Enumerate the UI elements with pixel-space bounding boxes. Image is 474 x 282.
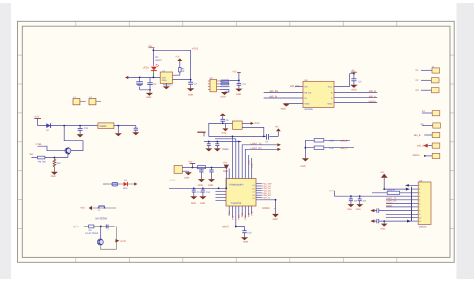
svg-text:VCAP: VCAP [169, 179, 175, 182]
svg-text:RO: RO [305, 85, 309, 88]
ground at U3 pin4 [281, 104, 290, 111]
capacitor C4 [237, 80, 247, 88]
ground under C3 [187, 88, 194, 96]
ground under C10 [241, 237, 249, 243]
node junction [153, 49, 155, 51]
svg-text:6: 6 [419, 202, 420, 205]
svg-text:+5V: +5V [380, 171, 385, 174]
capacitor C6 above [221, 116, 230, 123]
connector J6 [432, 132, 440, 137]
op-amp U2 body [210, 79, 217, 92]
ground under C13 [190, 196, 197, 205]
ground under U1 [163, 83, 170, 89]
bus entry arrow [406, 188, 410, 191]
connector J8 [432, 153, 440, 158]
wire pin8 VCC loop [334, 74, 354, 87]
svg-text:GND: GND [184, 177, 189, 180]
resistor R6 [37, 156, 46, 163]
capacitor C2 [147, 77, 157, 91]
wire [422, 112, 432, 114]
ground mid [115, 126, 122, 137]
ground under C16 [132, 132, 139, 135]
MCU top pin wires [215, 136, 277, 178]
resistor R1 [179, 68, 186, 74]
power arrow +3V3 [175, 56, 182, 68]
svg-text:NRST: NRST [223, 226, 230, 229]
resistor R7 zigzag [53, 158, 61, 169]
svg-text:GND: GND [347, 208, 352, 211]
svg-text:GND: GND [51, 175, 56, 178]
ground under U2 [221, 92, 229, 98]
MCU bottom pin wires [229, 206, 252, 227]
wire down [100, 226, 102, 239]
wire pin xtal1 [235, 139, 237, 179]
connector J2 [431, 78, 439, 83]
svg-text:VCC: VCC [328, 85, 333, 88]
capacitor C1 polarized [136, 77, 143, 89]
svg-text:GND: GND [188, 94, 193, 97]
svg-text:GNDA: GNDA [369, 100, 377, 103]
ground under C11 [198, 179, 205, 187]
op-amp U3 body SP3485 [303, 81, 334, 107]
wire pin5 gnd [334, 102, 377, 104]
wire pin1 [228, 206, 230, 216]
canvas strip right [457, 3, 474, 279]
transistor Q2 [97, 239, 103, 245]
svg-text:CTRL: CTRL [36, 143, 43, 146]
ground under R7 [51, 169, 58, 179]
svg-text:R6 10K: R6 10K [38, 161, 46, 164]
wire pin4 loop [220, 90, 229, 93]
svg-text:OUT1: OUT1 [120, 240, 127, 243]
frame tick marks [18, 21, 455, 262]
pin stubs left [208, 81, 210, 90]
net labels rows [386, 197, 397, 208]
bus line [411, 187, 413, 221]
wire pin1 [182, 167, 192, 169]
wire pin4 long with caps [335, 191, 412, 196]
svg-text:485_B: 485_B [340, 140, 347, 143]
port arrow [423, 144, 428, 148]
resistor R3 [221, 83, 229, 85]
wire left pin [223, 122, 233, 124]
power arrow up [381, 174, 388, 178]
wire pin7 B [334, 91, 377, 93]
capacitor C3 [188, 80, 197, 89]
svg-text:R9 470: R9 470 [388, 189, 396, 192]
wire [422, 125, 433, 127]
svg-text:RED: RED [123, 187, 128, 190]
resistor R8 [89, 225, 94, 232]
LED D1 [151, 64, 159, 71]
MCU right pin stubs and labels [256, 184, 262, 198]
power symbol +5V [350, 70, 356, 74]
svg-text:GNDA: GNDA [413, 154, 420, 157]
svg-text:3: 3 [419, 192, 420, 195]
wire emitter rail [31, 157, 68, 159]
svg-text:NET1: NET1 [103, 183, 110, 186]
wire pin a [248, 155, 250, 179]
resistor R4 [314, 139, 324, 142]
wire R4 row [305, 139, 350, 141]
svg-text:GND: GND [200, 202, 205, 205]
wire pin uart tx [242, 145, 277, 179]
canvas strip left [0, 3, 11, 279]
wire output rail [114, 125, 136, 127]
node [79, 125, 81, 127]
node [100, 226, 102, 228]
ground under C14 [199, 196, 206, 205]
node [153, 77, 155, 79]
capacitor C7 series [265, 134, 269, 143]
wire cap bottoms [140, 90, 150, 93]
svg-text:5: 5 [419, 199, 420, 202]
capacitor C10 [242, 231, 252, 238]
wire xtal bus b [215, 138, 236, 140]
ground under C15 [77, 134, 84, 137]
wire load-cap bus [204, 141, 241, 143]
svg-text:GND: GND [191, 202, 196, 205]
svg-text:+5V: +5V [175, 56, 180, 59]
svg-text:485_RO: 485_RO [290, 85, 299, 88]
resistor R5 [314, 146, 324, 149]
inner frame [22, 26, 450, 257]
svg-text:11: 11 [419, 220, 421, 223]
wire reset cap [236, 227, 245, 231]
wire R5 row [305, 147, 354, 149]
wire [92, 207, 116, 209]
pin names right [328, 85, 333, 105]
bus entry arrow pin1 [405, 184, 409, 187]
svg-text:485_A: 485_A [369, 95, 377, 98]
wire [421, 79, 431, 81]
svg-text:10: 10 [419, 217, 421, 220]
svg-text:C15: C15 [84, 127, 89, 130]
wire [421, 89, 431, 91]
power flag up-triangle [275, 125, 281, 136]
svg-text:1: 1 [419, 184, 420, 187]
capacitor C21 [358, 195, 362, 204]
svg-text:1K: 1K [182, 70, 185, 73]
wire pin2 [220, 83, 230, 85]
svg-text:GND: GND [236, 93, 241, 96]
transistor Q1 [65, 148, 71, 155]
port arrow RX [277, 148, 281, 151]
diode D2 [46, 123, 51, 132]
node [63, 125, 65, 127]
wire pin10 [386, 217, 412, 219]
ground under C9 [214, 148, 221, 151]
node [139, 77, 141, 79]
wire pin6 [386, 203, 412, 205]
svg-text:GND: GND [198, 184, 203, 187]
svg-text:PD7_TL: PD7_TL [262, 196, 271, 199]
power symbol +5V top [149, 48, 155, 51]
wire pin20 [228, 169, 230, 179]
svg-text:+5V1: +5V1 [192, 48, 199, 51]
svg-text:ROM0: ROM0 [262, 207, 270, 210]
capacitor C5 [351, 74, 362, 85]
wire base staircase [37, 146, 66, 151]
wire pin11 with series cap [370, 219, 411, 223]
node [353, 73, 355, 75]
wire pin4 [238, 206, 240, 218]
gnd bar symbol left [197, 132, 205, 136]
wire pin uart rx [245, 149, 277, 178]
svg-text:8: 8 [419, 209, 420, 212]
svg-text:485_B: 485_B [369, 90, 377, 93]
power symbol +12V [33, 116, 41, 126]
svg-text:C14: C14 [206, 191, 211, 194]
svg-text:SP3485: SP3485 [304, 108, 313, 111]
svg-text:4: 4 [419, 195, 420, 198]
wire collector loop [64, 126, 83, 151]
node [117, 125, 119, 127]
wire [424, 155, 432, 157]
wire pin8 [251, 206, 253, 214]
connector J1 [432, 68, 440, 73]
resistor R2 [221, 80, 229, 82]
connector J4 [432, 111, 440, 116]
wire [424, 134, 432, 136]
wire pin3 [220, 86, 230, 88]
schematic page [18, 21, 455, 262]
bottom pin net labels rotated [228, 210, 254, 219]
wire emitter stub [67, 154, 69, 158]
ground under C21 [356, 204, 363, 211]
connector J3 [431, 88, 439, 93]
node [54, 157, 56, 159]
svg-text:485_A: 485_A [417, 145, 424, 148]
svg-text:10K: 10K [56, 162, 61, 165]
wire [428, 145, 433, 147]
wire pin4 gnd [284, 103, 303, 105]
wire loop left [209, 123, 278, 136]
svg-text:VBAT: VBAT [329, 189, 335, 192]
wire box right loop [242, 127, 264, 136]
ground under C4 [235, 89, 242, 97]
pin names left [305, 85, 312, 105]
capacitor C14 [201, 187, 211, 196]
svg-text:NET2: NET2 [73, 225, 80, 228]
wire pin2 [264, 91, 303, 93]
wire [421, 69, 432, 71]
node [238, 80, 240, 82]
svg-text:485_DI: 485_DI [269, 96, 277, 99]
wire pin b [251, 158, 253, 179]
wire pin6 [244, 206, 246, 218]
capacitor C15 [78, 126, 89, 135]
svg-text:GND: GND [162, 79, 167, 82]
capacitor C9 [215, 142, 219, 149]
wire loop to arrow [101, 226, 117, 249]
pin stubs bus to box [406, 185, 419, 221]
ground [146, 91, 153, 99]
wire lower cap bus [169, 187, 226, 189]
svg-text:RE DE: RE DE [305, 91, 312, 94]
connector J9 2-pin box [174, 166, 182, 174]
wire pin7 [386, 206, 412, 208]
ground below [381, 220, 388, 230]
svg-text:485_A: 485_A [340, 147, 347, 150]
svg-text:GND: GND [305, 103, 310, 106]
svg-text:AMS1117: AMS1117 [163, 84, 173, 87]
input rail wire [128, 76, 160, 78]
ground under C8 [205, 148, 212, 151]
capacitor C8 [207, 142, 211, 149]
ground arrow below [272, 214, 279, 221]
resistor R9 [387, 191, 400, 194]
svg-text:+5V: +5V [275, 125, 280, 128]
transistor U4 MCU body [226, 179, 256, 207]
svg-text:78M05: 78M05 [99, 125, 107, 128]
regulator U5 body 78M05 [98, 123, 114, 129]
svg-text:GND: GND [243, 240, 248, 243]
svg-text:STM8S003F3: STM8S003F3 [229, 183, 244, 186]
capacitor C11 [199, 169, 203, 179]
svg-text:+5V: +5V [148, 45, 153, 48]
wire U1 upper out [173, 72, 180, 75]
wire green stub [152, 71, 154, 78]
port arrow left [89, 206, 92, 210]
svg-text:C10: C10 [247, 231, 252, 234]
ground flipped above C6 [220, 113, 226, 116]
inductor L2 hump [98, 206, 106, 208]
wire [103, 183, 134, 185]
connector J10 body [418, 182, 431, 225]
svg-text:GND: GND [381, 228, 386, 231]
svg-text:DI: DI [305, 97, 308, 100]
svg-text:9: 9 [419, 213, 420, 216]
svg-text:TSSOP20: TSSOP20 [231, 202, 242, 205]
ground under C5 [350, 85, 357, 92]
svg-text:SS14: SS14 [155, 59, 162, 62]
port arrow OSC [251, 122, 254, 125]
ground under C20 [347, 204, 354, 211]
svg-text:SWIM: SWIM [222, 148, 229, 151]
svg-text:IN2: IN2 [30, 153, 34, 156]
wire pin5 [386, 199, 412, 201]
wire pin19 [232, 136, 234, 178]
ground under C12 [208, 179, 215, 187]
capacitor C20 [349, 195, 353, 204]
svg-text:C13: C13 [197, 191, 202, 194]
node [190, 79, 192, 81]
wire pin2 power [384, 178, 406, 189]
wire pin1 RO stub [295, 85, 303, 87]
svg-text:VO1: VO1 [80, 207, 85, 210]
svg-text:485_B: 485_B [414, 134, 421, 137]
capacitor C13 [192, 187, 202, 196]
LED D3 [123, 179, 128, 190]
wire pin2 [182, 171, 188, 172]
wire pin7 [248, 206, 250, 215]
power symbol above [188, 161, 195, 168]
svg-text:VIN: VIN [162, 76, 166, 79]
svg-text:0.1uF 220uF: 0.1uF 220uF [85, 232, 99, 235]
wire gnd drop [304, 140, 306, 158]
ground [302, 158, 309, 161]
svg-text:485_EN: 485_EN [269, 90, 278, 93]
ground under pin2 [184, 172, 192, 179]
wire pin3 [235, 206, 237, 227]
ground under crystal pin [222, 123, 229, 134]
output rail wire [173, 79, 191, 81]
power symbol near MCU top-left [223, 161, 229, 188]
capacitor C17 series [106, 225, 109, 232]
svg-text:10K: 10K [329, 140, 334, 143]
MCU left pin stubs [216, 191, 227, 200]
svg-text:UART_TX: UART_TX [251, 143, 262, 146]
connector TP2 [89, 96, 101, 105]
svg-text:GND: GND [146, 96, 151, 99]
wire pin xtal2 [238, 142, 240, 179]
connector J5 [433, 123, 441, 128]
crystal Y1 body [232, 121, 242, 129]
svg-text:2: 2 [419, 188, 420, 191]
svg-text:GND: GND [223, 170, 228, 173]
wire pin3 with resistor [372, 192, 412, 194]
svg-text:GND: GND [356, 208, 361, 211]
svg-text:UART_RX: UART_RX [251, 147, 263, 150]
capacitor C12 [209, 167, 213, 180]
port arrow VIN [125, 76, 128, 79]
wire pin2 [232, 206, 234, 218]
pin names inside [419, 184, 421, 223]
wire crystal right port [242, 122, 250, 124]
svg-text:+5V: +5V [232, 70, 237, 73]
svg-text:+5V: +5V [223, 161, 228, 164]
wire right gnd drop [256, 200, 276, 214]
wire pin3 [264, 97, 303, 99]
svg-text:GND: GND [221, 95, 226, 98]
connector J7 [432, 143, 440, 148]
svg-text:GND: GND [222, 132, 227, 135]
capacitor C16 [134, 126, 138, 133]
svg-text:GND: GND [281, 107, 286, 110]
svg-text:5V-GSM: 5V-GSM [95, 217, 107, 221]
svg-text:GND: GND [273, 218, 278, 221]
pin stubs right [217, 81, 220, 90]
wire top rail [153, 50, 190, 79]
wire pin9 [386, 213, 412, 215]
svg-text:GND: GND [351, 89, 356, 92]
connector TP1 [73, 96, 86, 105]
svg-text:GND: GND [208, 184, 213, 187]
wire input rail [38, 125, 98, 127]
wire pin1 to rail [220, 79, 239, 82]
svg-text:NRST: NRST [386, 205, 393, 208]
wire diode feed [152, 50, 154, 66]
wire rail [192, 167, 226, 169]
wire pin5 [241, 206, 243, 216]
svg-text:GND: GND [301, 165, 306, 168]
svg-text:CON10: CON10 [419, 226, 427, 229]
svg-text:LED1: LED1 [143, 67, 150, 70]
power symbol +5V [232, 70, 241, 80]
svg-text:10K: 10K [329, 147, 334, 150]
wire top [84, 225, 115, 227]
op-amp U1 regulator AMS1117 body [160, 70, 173, 87]
port arrow right [134, 182, 137, 185]
port arrow TX [277, 143, 281, 146]
wire pin6 A [334, 97, 377, 99]
ferrite bead L1 [197, 166, 205, 169]
fuse F3 [112, 182, 118, 186]
svg-text:OSC: OSC [254, 122, 259, 125]
wire pin8 with series cap [370, 208, 411, 212]
svg-text:7: 7 [419, 206, 420, 209]
